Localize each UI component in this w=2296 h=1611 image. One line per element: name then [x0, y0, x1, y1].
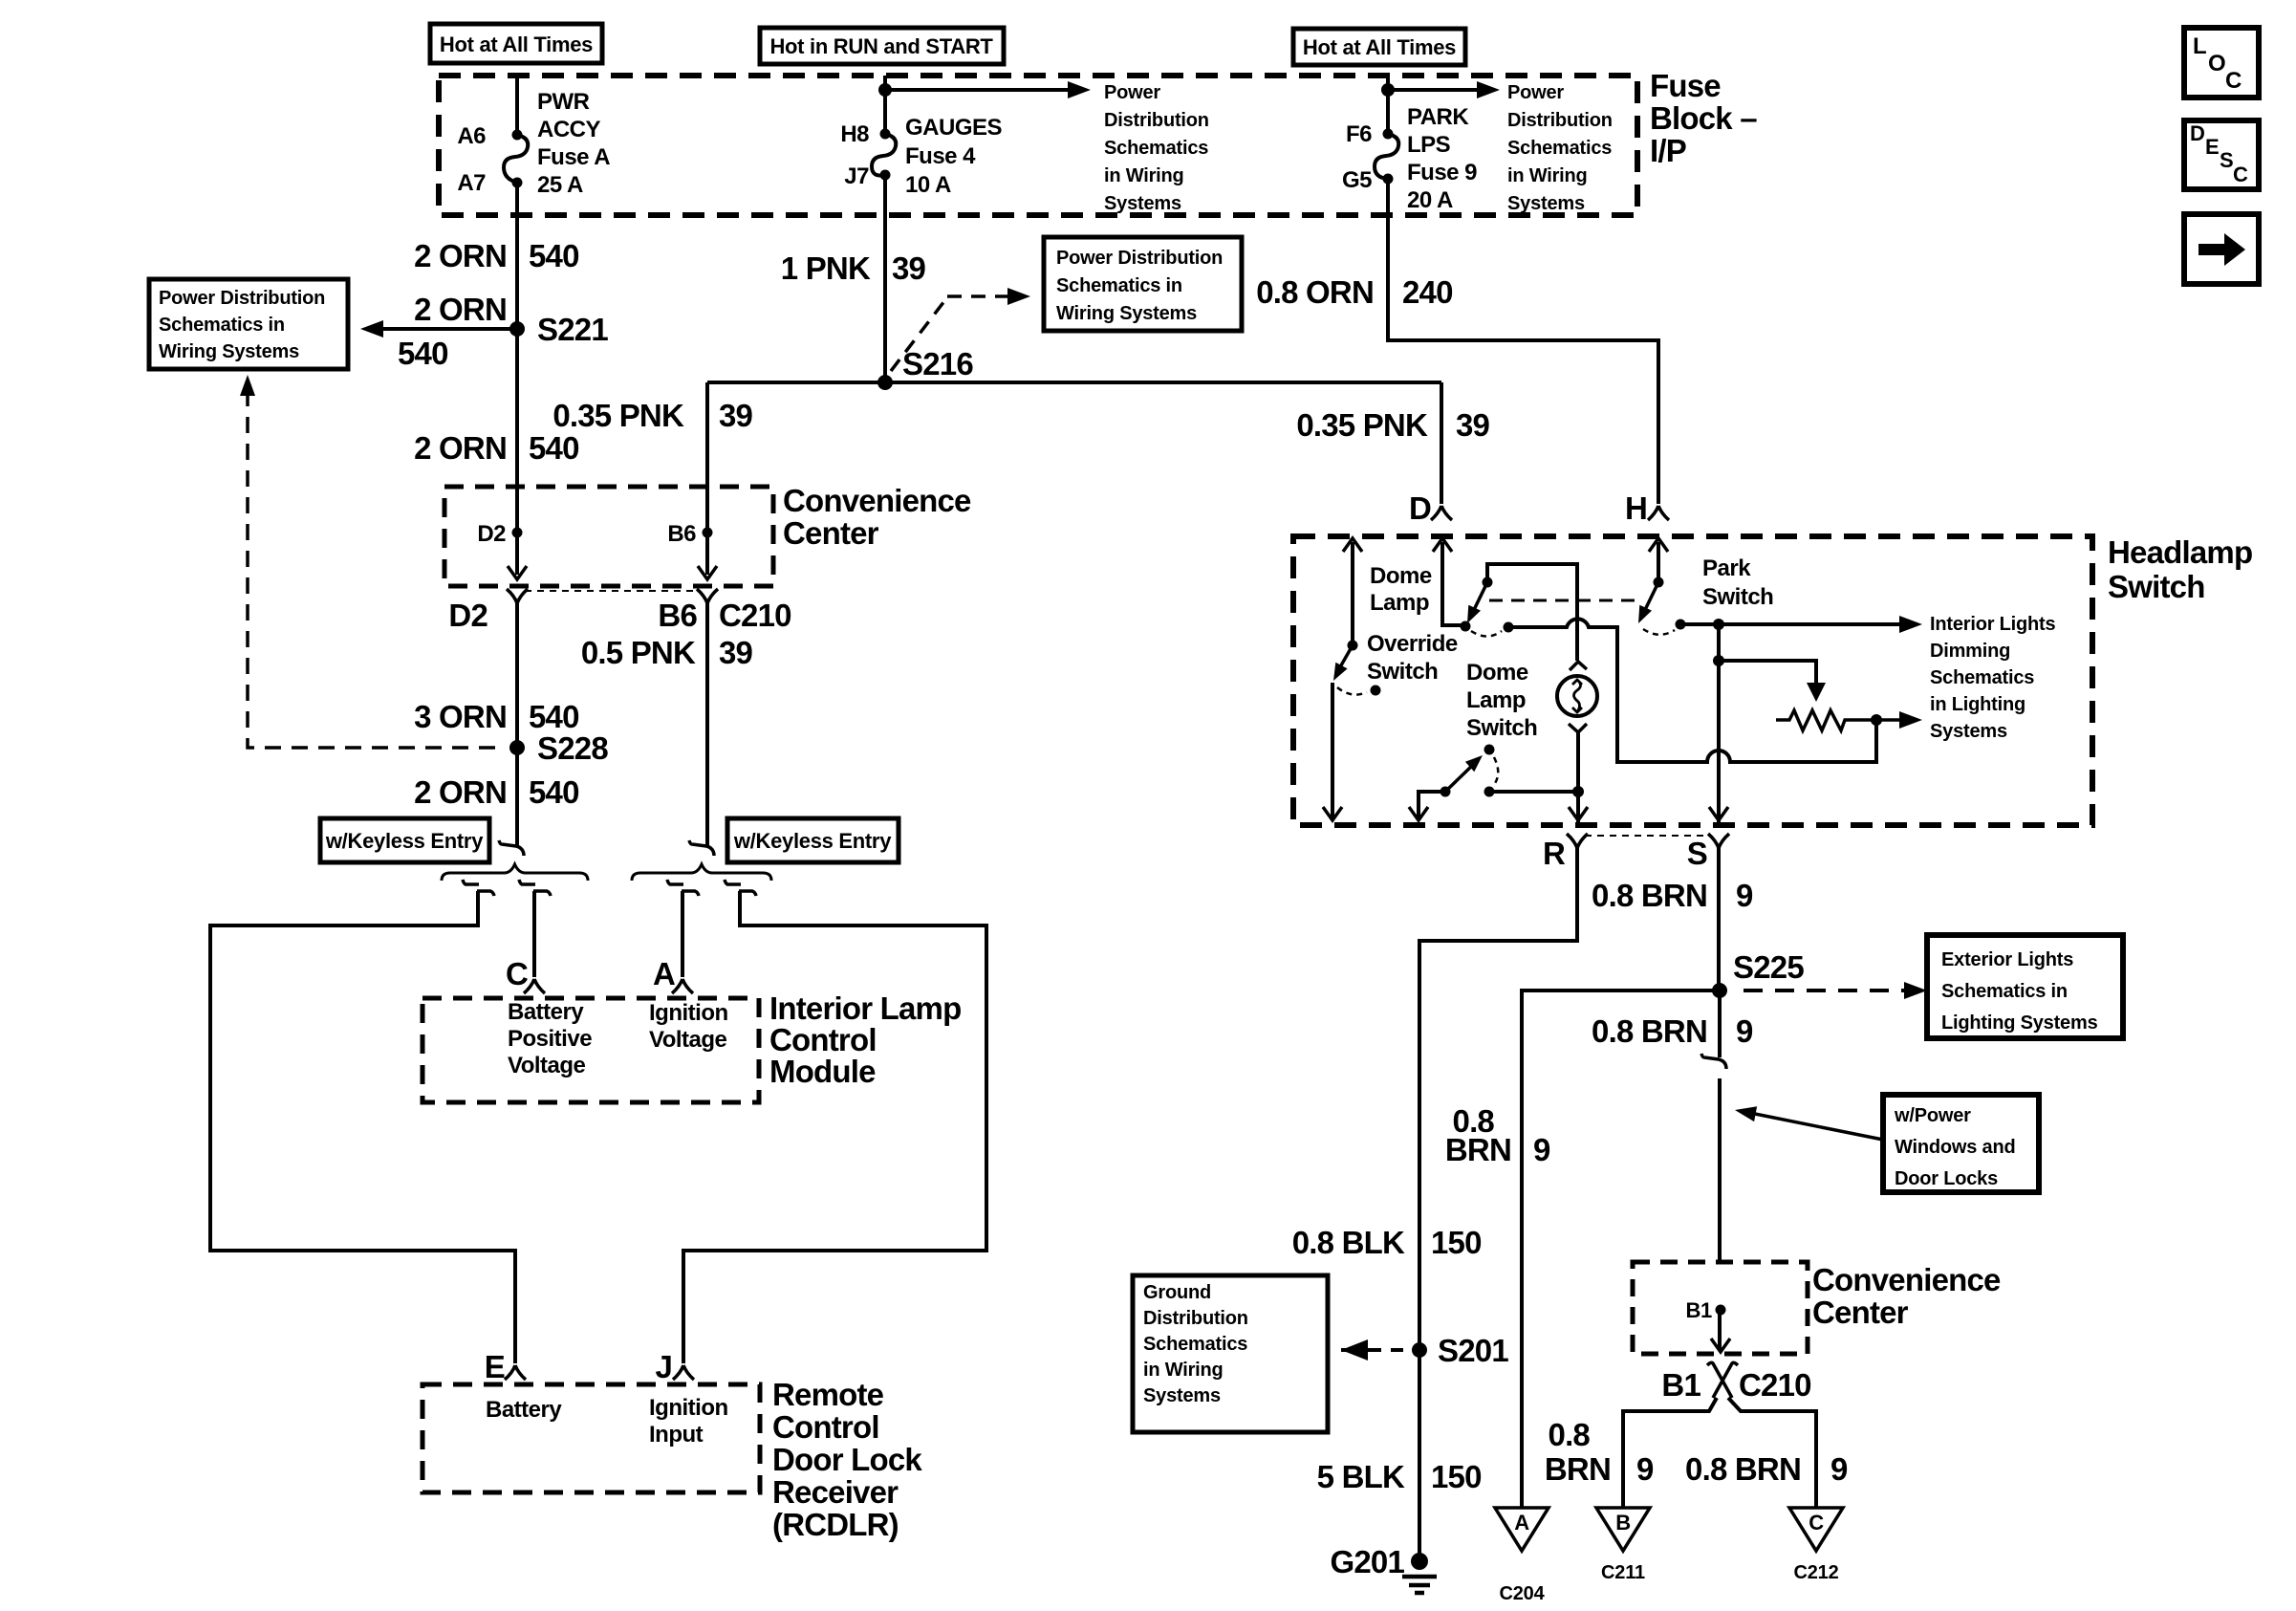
- svg-text:Voltage: Voltage: [508, 1053, 586, 1078]
- label box: Hot in RUN and START: [760, 28, 1004, 64]
- dashed arrow: S201 to ground distribution ref: [1369, 1348, 1412, 1352]
- svg-text:Interior Lights: Interior Lights: [1930, 614, 2056, 635]
- junction node on fuse 4 feed: [878, 83, 892, 97]
- svg-text:Ground: Ground: [1143, 1282, 1211, 1303]
- wire: fuse 4 to S216 (1 PNK 39): [883, 175, 887, 382]
- svg-text:Center: Center: [783, 515, 879, 551]
- svg-text:PARK: PARK: [1407, 104, 1469, 130]
- svg-text:Convenience: Convenience: [1812, 1262, 2001, 1297]
- label box: w/Keyless Entry (left): [320, 818, 489, 862]
- svg-text:Dimming: Dimming: [1930, 641, 2010, 662]
- wire: ignition to ILCM pin A: [681, 891, 684, 977]
- svg-text:F6: F6: [1346, 121, 1372, 147]
- svg-text:Ignition: Ignition: [649, 1395, 728, 1421]
- splice S201: [1412, 1342, 1427, 1358]
- pin D2 of convenience center: [512, 528, 523, 538]
- svg-text:D: D: [2190, 121, 2205, 145]
- ref box: Power Distribution Schematics in Wiring Systems (middle): [1044, 237, 1242, 331]
- label box: w/Keyless Entry (right): [727, 818, 899, 862]
- svg-text:Switch: Switch: [1466, 715, 1537, 741]
- svg-text:L: L: [2193, 33, 2206, 59]
- svg-text:H8: H8: [840, 121, 869, 147]
- svg-text:0.8: 0.8: [1549, 1417, 1591, 1452]
- svg-text:Override: Override: [1367, 631, 1458, 657]
- svg-text:D: D: [1409, 490, 1431, 526]
- svg-text:Schematics in: Schematics in: [159, 315, 285, 336]
- svg-text:0.8 BRN: 0.8 BRN: [1685, 1451, 1801, 1487]
- svg-text:Switch: Switch: [1367, 659, 1438, 685]
- svg-text:S216: S216: [902, 346, 973, 381]
- svg-text:Exterior Lights: Exterior Lights: [1941, 949, 2073, 970]
- svg-text:B1: B1: [1685, 1298, 1712, 1322]
- svg-text:Lamp: Lamp: [1466, 687, 1526, 713]
- pin H fork: [1648, 506, 1669, 520]
- lamp connector (bottom): [1569, 724, 1587, 732]
- svg-text:E: E: [2205, 135, 2219, 159]
- inline connector (battery, to RCDLR): [463, 880, 494, 896]
- svg-text:2 ORN: 2 ORN: [414, 430, 507, 466]
- terminal S fork: [1708, 834, 1729, 848]
- svg-text:C: C: [506, 956, 528, 991]
- wire: split to C211: [1623, 1398, 1717, 1508]
- wire: split to C212: [1728, 1398, 1816, 1508]
- svg-text:(RCDLR): (RCDLR): [772, 1507, 899, 1542]
- wire: D feed inside switch: [1442, 542, 1465, 625]
- splice S216: [877, 375, 893, 390]
- svg-text:BRN: BRN: [1445, 1132, 1511, 1167]
- svg-text:in Wiring: in Wiring: [1104, 165, 1184, 186]
- svg-text:3 ORN: 3 ORN: [414, 699, 507, 734]
- wire: S216 horizontal run: [707, 381, 1441, 384]
- svg-text:540: 540: [529, 774, 579, 810]
- option break on ignition wire: [689, 840, 714, 856]
- svg-text:Fuse A: Fuse A: [537, 144, 610, 170]
- arrow from w/Power option box: [1745, 1112, 1883, 1140]
- svg-text:25 A: 25 A: [537, 172, 583, 198]
- ground G201: [1411, 1553, 1428, 1570]
- svg-text:Hot in RUN and START: Hot in RUN and START: [769, 34, 993, 58]
- svg-text:Schematics: Schematics: [1143, 1334, 1247, 1355]
- wire: D2 to S228 to keyless break (ORN 540): [515, 603, 519, 845]
- wire: S225 branch to C204 (0.8 BRN 9): [1522, 991, 1720, 1508]
- svg-text:9: 9: [1736, 1013, 1753, 1049]
- ref box: Exterior Lights Schematics in Lighting Systems: [1927, 935, 2123, 1038]
- svg-text:540: 540: [529, 238, 579, 273]
- svg-text:A6: A6: [457, 123, 486, 149]
- svg-text:G5: G5: [1342, 167, 1372, 193]
- svg-text:w/Power: w/Power: [1894, 1105, 1971, 1126]
- svg-text:LPS: LPS: [1407, 132, 1451, 158]
- svg-text:10 A: 10 A: [905, 172, 951, 198]
- wire: park switch output to interior lights ref: [1680, 622, 1902, 626]
- svg-text:B: B: [1615, 1511, 1631, 1535]
- dome lamp slide switch upper contact: [1484, 745, 1495, 755]
- option break on battery wire: [499, 840, 524, 856]
- wire: S201 to G201: [1418, 1350, 1421, 1561]
- icon box: DESC: [2184, 120, 2259, 189]
- dashed route: S216 to power distribution ref box: [891, 296, 1015, 371]
- fuse 9 PARK LPS 20A: [1383, 129, 1394, 140]
- dome lamp switch contact (D side): [1461, 621, 1471, 632]
- svg-text:0.8 BRN: 0.8 BRN: [1592, 878, 1707, 913]
- svg-text:0.8 BLK: 0.8 BLK: [1292, 1225, 1405, 1260]
- wire: ignition loop to RCDLR pin J: [683, 891, 986, 1363]
- park switch lever: [1654, 577, 1664, 588]
- terminal R fork: [1567, 834, 1588, 848]
- svg-text:Systems: Systems: [1930, 721, 2007, 742]
- svg-text:Schematics: Schematics: [1930, 667, 2034, 688]
- junction node to dimmer arrow: [1713, 655, 1724, 666]
- svg-text:Ignition: Ignition: [649, 1000, 728, 1026]
- svg-text:C: C: [2225, 68, 2242, 94]
- svg-text:C: C: [2233, 163, 2248, 186]
- junction node on wiper output: [1871, 714, 1882, 726]
- svg-text:39: 39: [892, 250, 926, 286]
- wire: slide switch to box bottom: [1419, 792, 1445, 817]
- svg-text:I/P: I/P: [1650, 133, 1686, 168]
- svg-text:9: 9: [1736, 878, 1753, 913]
- wire: battery feed to fuse A: [515, 76, 519, 135]
- svg-text:D2: D2: [448, 598, 487, 633]
- svg-text:Hot at All Times: Hot at All Times: [1303, 35, 1456, 59]
- connector line below convenience center: [525, 590, 700, 592]
- grommet C triangle C212: [1789, 1508, 1843, 1551]
- svg-text:Door Lock: Door Lock: [772, 1442, 922, 1477]
- wire: ignition feed to fuse 4: [883, 76, 887, 134]
- svg-text:Voltage: Voltage: [649, 1027, 727, 1053]
- pin D fork: [1431, 506, 1452, 520]
- svg-text:in Wiring: in Wiring: [1507, 165, 1588, 186]
- svg-text:Dome: Dome: [1370, 563, 1432, 589]
- dome lamp slide switch lower contact: [1484, 787, 1495, 797]
- svg-text:C210: C210: [719, 598, 791, 633]
- svg-text:E: E: [485, 1349, 505, 1384]
- connector line below headlamp switch: [1585, 835, 1711, 837]
- wire: slide switch contact to R wire: [1489, 790, 1578, 794]
- wire: S terminal drop: [1717, 624, 1721, 823]
- svg-text:w/Keyless Entry: w/Keyless Entry: [325, 829, 484, 853]
- svg-text:J: J: [655, 1349, 672, 1384]
- ref box: Ground Distribution Schematics in Wiring Systems: [1133, 1275, 1328, 1432]
- wire: battery loop to RCDLR pin E: [210, 891, 515, 1363]
- svg-text:Hot at All Times: Hot at All Times: [440, 33, 593, 56]
- svg-text:Control: Control: [769, 1022, 877, 1057]
- svg-text:Systems: Systems: [1507, 193, 1585, 214]
- wire: lamp feed loop: [1487, 564, 1577, 661]
- remote control door lock receiver dashed box: [422, 1384, 760, 1492]
- svg-text:540: 540: [529, 699, 579, 734]
- svg-text:A7: A7: [457, 170, 486, 196]
- headlamp switch dashed box: [1293, 536, 2092, 825]
- fuse block I/P dashed box: [439, 76, 1637, 215]
- dome lamp switch output contact: [1504, 622, 1514, 633]
- convenience center dashed box (bottom): [1633, 1262, 1808, 1354]
- dome lamp switch lever: [1483, 577, 1493, 588]
- svg-text:540: 540: [398, 336, 448, 371]
- svg-text:39: 39: [719, 398, 753, 433]
- svg-text:Windows and: Windows and: [1895, 1137, 2016, 1158]
- wire: lamp to R terminal: [1576, 732, 1580, 823]
- wire: S to S225: [1717, 848, 1721, 991]
- wire: dome switch output to dimmer wiper: [1508, 619, 1876, 762]
- svg-text:Power: Power: [1507, 82, 1564, 103]
- svg-text:2 ORN: 2 ORN: [414, 238, 507, 273]
- svg-text:Switch: Switch: [2108, 569, 2205, 604]
- svg-text:B6: B6: [658, 598, 697, 633]
- label box: w/Power Windows and Door Locks: [1883, 1095, 2039, 1192]
- junction node on fuse 9 feed: [1381, 83, 1395, 97]
- svg-text:0.8 ORN: 0.8 ORN: [1256, 274, 1374, 310]
- svg-text:C211: C211: [1601, 1562, 1645, 1583]
- svg-text:0.35 PNK: 0.35 PNK: [1296, 407, 1428, 443]
- svg-text:S221: S221: [537, 312, 608, 347]
- label box: Hot at All Times (right): [1293, 29, 1465, 65]
- svg-text:Positive: Positive: [508, 1026, 592, 1052]
- arrow: feed to Power Distribution Schematics (right): [1388, 88, 1480, 92]
- arrow out of convenience center: [1718, 1310, 1722, 1350]
- override switch lever: [1348, 641, 1358, 651]
- svg-text:Dome: Dome: [1466, 660, 1528, 686]
- wire: R to ground circuit: [1419, 848, 1577, 1350]
- svg-text:S225: S225: [1733, 949, 1804, 985]
- inline connector (battery, to ILCM): [519, 880, 551, 896]
- brace joining ignition options: [632, 864, 771, 881]
- override switch contact: [1371, 686, 1381, 696]
- svg-text:C: C: [1809, 1511, 1824, 1535]
- svg-text:Systems: Systems: [1143, 1385, 1221, 1406]
- svg-text:9: 9: [1533, 1132, 1550, 1167]
- svg-text:Block –: Block –: [1650, 100, 1757, 136]
- lamp connector (top): [1570, 662, 1587, 670]
- svg-text:Power Distribution: Power Distribution: [1056, 248, 1223, 269]
- svg-text:Remote: Remote: [772, 1377, 884, 1412]
- svg-text:H: H: [1625, 490, 1647, 526]
- svg-text:540: 540: [529, 430, 579, 466]
- svg-text:B6: B6: [667, 521, 696, 547]
- svg-text:Fuse: Fuse: [1650, 68, 1721, 103]
- junction node on R wire: [1572, 786, 1584, 797]
- svg-text:GAUGES: GAUGES: [905, 115, 1003, 141]
- svg-text:S201: S201: [1438, 1333, 1508, 1368]
- wire: S221 to power distribution ref (2 ORN 540): [381, 327, 517, 331]
- svg-text:O: O: [2208, 51, 2225, 76]
- override switch feed: [1351, 542, 1354, 645]
- svg-text:B1: B1: [1661, 1367, 1700, 1403]
- svg-text:20 A: 20 A: [1407, 187, 1453, 213]
- svg-text:Battery: Battery: [508, 999, 584, 1025]
- svg-text:A: A: [1514, 1511, 1529, 1535]
- svg-text:Fuse 4: Fuse 4: [905, 143, 976, 169]
- svg-text:Center: Center: [1812, 1295, 1909, 1330]
- dashed route: S228 to power distribution ref box: [248, 390, 502, 748]
- wire: S216 branch to headlamp switch D (0.35 PNK 39): [1440, 382, 1443, 504]
- svg-text:Schematics in: Schematics in: [1941, 981, 2068, 1002]
- inline connector (ignition, to RCDLR): [725, 880, 756, 896]
- svg-text:Lighting Systems: Lighting Systems: [1941, 1012, 2098, 1034]
- svg-text:Lamp: Lamp: [1370, 590, 1429, 616]
- wire: C210 to keyless break (0.5 PNK 39): [705, 603, 709, 845]
- svg-text:Distribution: Distribution: [1507, 110, 1613, 131]
- svg-text:S228: S228: [537, 730, 608, 766]
- svg-text:PWR: PWR: [537, 89, 590, 115]
- svg-text:Receiver: Receiver: [772, 1474, 899, 1510]
- svg-text:Input: Input: [649, 1422, 704, 1448]
- svg-text:1 PNK: 1 PNK: [781, 250, 871, 286]
- fuse A PWR ACCY 25A: [512, 130, 523, 141]
- wire: battery feed to fuse 9: [1386, 76, 1390, 134]
- ref box: Power Distribution Schematics in Wiring Systems (left): [149, 279, 348, 369]
- arrow: feed to Power Distribution Schematics: [885, 88, 1071, 92]
- mechanical link dashed (dome to park): [1489, 599, 1636, 602]
- svg-text:Convenience: Convenience: [783, 483, 971, 518]
- junction node park output / S wire: [1713, 619, 1724, 630]
- svg-text:150: 150: [1431, 1225, 1482, 1260]
- svg-text:9: 9: [1830, 1451, 1848, 1487]
- svg-text:Power: Power: [1104, 82, 1160, 103]
- svg-text:Schematics: Schematics: [1104, 138, 1208, 159]
- svg-text:ACCY: ACCY: [537, 117, 600, 142]
- svg-text:D2: D2: [477, 521, 506, 547]
- pin E fork: [505, 1365, 526, 1380]
- svg-text:J7: J7: [844, 163, 869, 189]
- svg-text:39: 39: [1456, 407, 1490, 443]
- pin A fork: [672, 979, 693, 993]
- icon box: LOC: [2184, 28, 2259, 98]
- svg-text:Door Locks: Door Locks: [1895, 1168, 1998, 1189]
- svg-text:0.5 PNK: 0.5 PNK: [581, 635, 696, 670]
- svg-text:Systems: Systems: [1104, 193, 1181, 214]
- svg-text:C204: C204: [1499, 1583, 1545, 1604]
- svg-text:Park: Park: [1702, 555, 1751, 581]
- pin C fork: [524, 979, 545, 993]
- svg-text:C210: C210: [1739, 1367, 1811, 1403]
- svg-text:Schematics in: Schematics in: [1056, 275, 1182, 296]
- svg-text:R: R: [1543, 836, 1566, 871]
- splice S221: [509, 321, 525, 337]
- wire: override to box bottom: [1331, 683, 1334, 817]
- svg-text:A: A: [653, 956, 675, 991]
- convenience center dashed box (top): [444, 487, 773, 586]
- icon box: arrow: [2184, 214, 2259, 284]
- override switch travel arc: [1337, 687, 1367, 695]
- svg-text:Schematics: Schematics: [1507, 138, 1612, 159]
- svg-text:in Wiring: in Wiring: [1143, 1360, 1224, 1381]
- svg-text:150: 150: [1431, 1459, 1482, 1494]
- svg-text:39: 39: [719, 635, 753, 670]
- fuse 4 GAUGES 10A: [880, 129, 891, 140]
- dimmer resistor: [1776, 710, 1902, 730]
- svg-text:0.35 PNK: 0.35 PNK: [552, 398, 684, 433]
- connector D2 fork: [507, 589, 528, 603]
- svg-text:Control: Control: [772, 1409, 879, 1445]
- connector B6 / C210 fork: [697, 589, 718, 603]
- splice S228: [509, 740, 525, 755]
- svg-text:G201: G201: [1330, 1544, 1404, 1579]
- splice S225: [1712, 983, 1727, 998]
- svg-text:S: S: [1687, 836, 1707, 871]
- svg-text:2 ORN: 2 ORN: [414, 292, 507, 327]
- park switch output contact: [1676, 620, 1686, 630]
- svg-text:w/Keyless Entry: w/Keyless Entry: [733, 829, 892, 853]
- wire: S225 to convenience center B1: [1718, 991, 1722, 1057]
- svg-text:5 BLK: 5 BLK: [1317, 1459, 1405, 1494]
- svg-text:2 ORN: 2 ORN: [414, 774, 507, 810]
- svg-text:Module: Module: [769, 1054, 876, 1089]
- svg-text:Distribution: Distribution: [1143, 1308, 1248, 1329]
- dome lamp slide switch travel arc: [1493, 757, 1498, 786]
- wire: fuse 9 to headlamp switch H (0.8 ORN 240): [1388, 179, 1658, 504]
- wire: H feed inside switch: [1657, 542, 1660, 582]
- wire: fuse A to convenience center (2 ORN 540): [515, 183, 519, 575]
- dome lamp (bulb symbol): [1557, 676, 1597, 716]
- svg-text:C212: C212: [1793, 1562, 1838, 1583]
- dome lamp switch travel arc: [1471, 631, 1502, 637]
- park switch travel arc: [1643, 629, 1675, 635]
- connector B1 / C210 crossover: [1707, 1362, 1738, 1398]
- dome lamp slide switch lever: [1440, 787, 1451, 797]
- arrow into convenience center (D2 wire): [508, 566, 527, 579]
- dashed arrow: S225 to exterior lights ref: [1744, 989, 1906, 992]
- arrow into convenience center (B6 wire): [698, 566, 717, 579]
- svg-text:Wiring Systems: Wiring Systems: [1056, 303, 1197, 324]
- svg-text:in Lighting: in Lighting: [1930, 694, 2025, 715]
- svg-text:BRN: BRN: [1545, 1451, 1611, 1487]
- label box: Hot at All Times (left): [430, 24, 602, 63]
- svg-text:240: 240: [1402, 274, 1453, 310]
- svg-text:Headlamp: Headlamp: [2108, 534, 2252, 570]
- svg-text:9: 9: [1636, 1451, 1654, 1487]
- wire: S216 branch to convenience center B6 (0.35 PNK 39): [705, 382, 709, 575]
- inline connector (ignition, to ILCM): [667, 880, 699, 896]
- svg-text:Fuse 9: Fuse 9: [1407, 160, 1477, 185]
- pin J fork: [673, 1365, 694, 1380]
- wire: battery to ILCM pin C: [532, 891, 536, 977]
- brace joining battery options: [442, 864, 588, 881]
- svg-text:0.8 BRN: 0.8 BRN: [1592, 1013, 1707, 1049]
- svg-text:Distribution: Distribution: [1104, 110, 1209, 131]
- svg-text:S: S: [2220, 148, 2233, 172]
- svg-text:Power Distribution: Power Distribution: [159, 288, 325, 309]
- svg-text:Wiring Systems: Wiring Systems: [159, 341, 299, 362]
- grommet A triangle C204: [1495, 1508, 1549, 1551]
- svg-text:Switch: Switch: [1702, 584, 1773, 610]
- svg-text:Battery: Battery: [486, 1397, 562, 1423]
- pin B1 of convenience center: [1716, 1305, 1726, 1316]
- grommet B triangle C211: [1596, 1508, 1650, 1551]
- arrow to dimmer resistor: [1719, 661, 1816, 685]
- interior lamp control module dashed box: [422, 998, 759, 1102]
- svg-text:Interior Lamp: Interior Lamp: [769, 991, 961, 1026]
- pin B6 of convenience center: [703, 528, 713, 538]
